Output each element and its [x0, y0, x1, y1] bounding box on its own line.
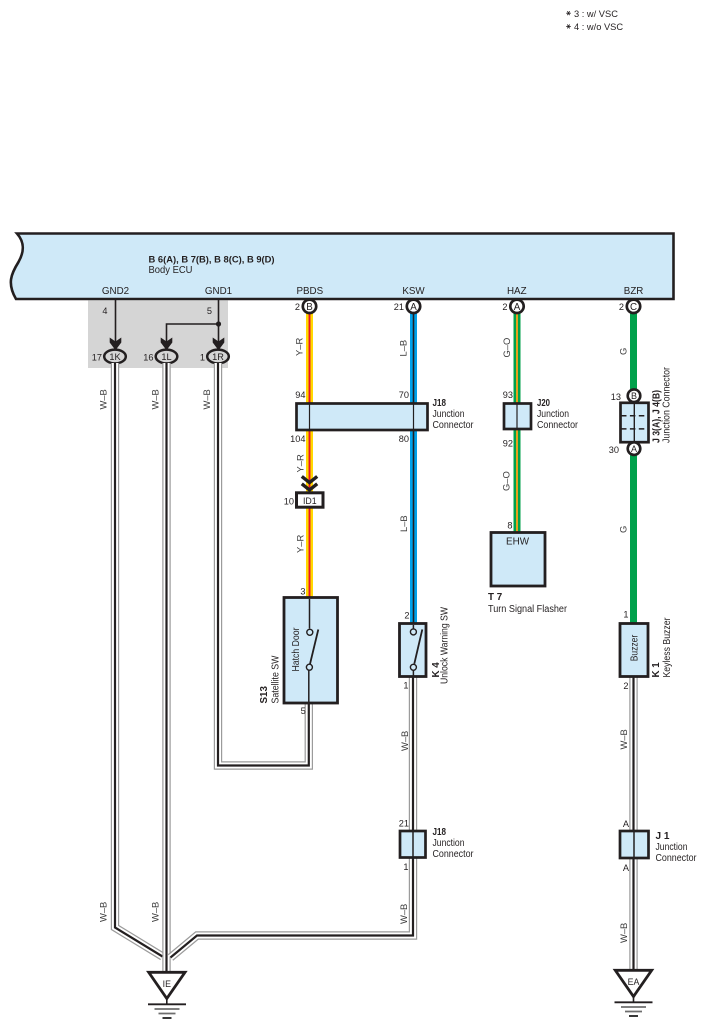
svg-text:4: 4 — [102, 306, 107, 316]
junction connector J18 (upper, wide) — [290, 390, 474, 444]
svg-text:93: 93 — [503, 390, 513, 400]
hatch door switch S13 body — [259, 587, 338, 717]
junction dot on GND1 wire — [216, 321, 221, 326]
junction connector J18 (lower) — [399, 819, 474, 872]
svg-text:J18: J18 — [433, 827, 447, 838]
svg-text:Satellite SW: Satellite SW — [271, 655, 282, 704]
wire GND2 pin 4 — [115, 300, 117, 342]
ECU pin circle A (HAZ pin 2) — [502, 300, 523, 313]
svg-text:Body ECU: Body ECU — [149, 265, 193, 276]
connector 1R pin 1 — [207, 350, 229, 364]
svg-text:BZR: BZR — [624, 286, 644, 297]
svg-text:IE: IE — [163, 979, 171, 989]
svg-text:1: 1 — [403, 862, 408, 872]
wire W-B from 1R to S13 pin 5 — [218, 363, 309, 766]
svg-text:1: 1 — [200, 353, 205, 363]
svg-text:W–B: W–B — [98, 902, 109, 922]
wire G-O J20 to EHW pin 8 — [514, 430, 521, 533]
svg-text:Buzzer: Buzzer — [629, 634, 640, 661]
ground EA hatching — [615, 1002, 653, 1016]
svg-text:5: 5 — [207, 306, 212, 316]
wire W-B from K4 pin 1 through J18 to IE ground — [171, 677, 414, 958]
svg-text:80: 80 — [399, 434, 409, 444]
svg-text:W–B: W–B — [618, 729, 629, 749]
junction connector J3(A) J4(B) grid body — [621, 366, 673, 443]
svg-text:Junction: Junction — [656, 842, 688, 853]
svg-text:2: 2 — [295, 302, 300, 312]
svg-text:Connector: Connector — [433, 849, 475, 860]
svg-text:PBDS: PBDS — [296, 286, 323, 297]
svg-text:J18: J18 — [433, 398, 447, 409]
ECU pin circle C (BZR pin 2) — [619, 300, 640, 313]
unlock warning switch K4 body — [400, 606, 451, 690]
svg-text:16: 16 — [143, 353, 153, 363]
chevron arrows into ID1 — [302, 476, 317, 490]
junction connector J3(A) J4(B) pin circle B — [611, 389, 641, 402]
svg-text:B: B — [631, 391, 637, 401]
note asterisk 3 — [566, 11, 571, 15]
svg-text:1L: 1L — [161, 352, 171, 362]
wire L-B J18 to K4 pin 2 — [410, 430, 417, 624]
wire G BZR to J3 pin 13 — [630, 312, 637, 390]
svg-text:B 6(A), B 7(B), B 8(C), B 9(D): B 6(A), B 7(B), B 8(C), B 9(D) — [149, 254, 275, 265]
svg-text:Junction: Junction — [433, 838, 465, 849]
svg-text:3: 3 — [300, 587, 305, 597]
svg-text:Unlock Warning SW: Unlock Warning SW — [440, 606, 451, 684]
svg-text:Y–R: Y–R — [295, 454, 306, 472]
svg-text:8: 8 — [507, 520, 512, 530]
ECU pin circle B (PBDS pin 2) — [295, 300, 316, 313]
svg-text:70: 70 — [399, 390, 409, 400]
connector 1L pin 16 — [156, 350, 178, 364]
svg-text:S13: S13 — [259, 686, 270, 704]
svg-text:Y–R: Y–R — [294, 338, 305, 356]
svg-text:Connector: Connector — [656, 853, 698, 864]
svg-text:92: 92 — [503, 439, 513, 449]
wire W-B from 1L to IE ground — [162, 363, 170, 973]
svg-text:W–B: W–B — [150, 389, 161, 409]
svg-text:A: A — [631, 444, 637, 454]
svg-text:KSW: KSW — [402, 286, 425, 297]
svg-text:Y–R: Y–R — [295, 535, 306, 553]
keyless buzzer K1 body — [620, 610, 673, 692]
junction connector J1 — [620, 819, 697, 873]
svg-text:104: 104 — [290, 434, 305, 444]
svg-text:2: 2 — [404, 611, 409, 621]
svg-text:B: B — [306, 302, 313, 313]
ground connector shaded block — [88, 301, 228, 369]
wire G J3 pin 30 to buzzer pin 1 — [630, 455, 637, 624]
svg-text:GND1: GND1 — [205, 286, 232, 297]
ID1 box pin 10 — [284, 493, 323, 507]
wire L-B KSW to J18 — [410, 312, 417, 404]
svg-text:K 1: K 1 — [651, 662, 662, 678]
svg-text:J 1: J 1 — [656, 831, 671, 842]
turn signal flasher T7 EHW box — [488, 520, 568, 614]
svg-text:Junction: Junction — [433, 409, 465, 420]
svg-text:W–B: W–B — [398, 904, 409, 924]
svg-text:21: 21 — [394, 302, 404, 312]
svg-text:W–B: W–B — [150, 902, 161, 922]
svg-text:A: A — [410, 302, 417, 313]
arrow into 1K — [110, 338, 122, 351]
svg-text:1R: 1R — [212, 352, 224, 362]
svg-text:L–B: L–B — [398, 340, 409, 357]
svg-text:Junction Connector: Junction Connector — [662, 366, 673, 443]
svg-text:EHW: EHW — [506, 537, 530, 548]
wire W-B from 1K to IE ground — [115, 363, 163, 957]
svg-text:W–B: W–B — [201, 389, 212, 409]
connector 1K pin 17 — [104, 350, 126, 364]
svg-text:30: 30 — [609, 445, 619, 455]
svg-text:G: G — [618, 348, 629, 355]
svg-text:1: 1 — [403, 681, 408, 691]
wire Y-R J18 to ID1 — [306, 430, 313, 493]
svg-text:Junction: Junction — [537, 409, 569, 420]
ground IE hatching — [148, 1004, 186, 1018]
svg-text:1: 1 — [623, 610, 628, 620]
svg-text:W–B: W–B — [98, 389, 109, 409]
svg-text:1K: 1K — [109, 352, 121, 362]
wire Y-R ID1 to S13 pin 3 — [306, 508, 313, 599]
svg-text:2: 2 — [619, 302, 624, 312]
svg-text:Turn Signal Flasher: Turn Signal Flasher — [488, 604, 568, 615]
svg-text:Hatch Door: Hatch Door — [291, 627, 302, 672]
svg-text:94: 94 — [295, 390, 305, 400]
wire GND1 pin 5 — [218, 300, 220, 342]
svg-text:G–O: G–O — [501, 471, 512, 491]
svg-text:W–B: W–B — [618, 923, 629, 943]
svg-text:A: A — [514, 302, 521, 313]
svg-text:Connector: Connector — [537, 420, 579, 431]
svg-text:HAZ: HAZ — [507, 286, 527, 297]
svg-text:4 : w/o VSC: 4 : w/o VSC — [574, 22, 623, 32]
wire W-B from buzzer K1 pin 2 through J1 to EA ground — [629, 677, 637, 971]
svg-text:GND2: GND2 — [102, 286, 129, 297]
junction connector J3(A) J4(B) pin circle A — [609, 442, 641, 455]
branch wire to 1L — [167, 324, 219, 342]
svg-text:A: A — [623, 819, 630, 829]
Body ECU box B6(A) B7(B) B8(C) B9(D) — [11, 234, 674, 300]
svg-text:5: 5 — [301, 706, 306, 716]
svg-text:Connector: Connector — [433, 420, 475, 431]
svg-text:17: 17 — [92, 353, 102, 363]
ground IE triangle — [149, 972, 185, 1004]
svg-text:EA: EA — [628, 977, 640, 987]
ground EA triangle — [615, 970, 651, 1002]
svg-text:J20: J20 — [537, 398, 550, 409]
svg-text:L–B: L–B — [398, 515, 409, 532]
ECU pin circle A (KSW pin 21) — [394, 300, 420, 313]
wire Y-R PBDS to J18 — [306, 312, 313, 404]
svg-text:ID1: ID1 — [303, 496, 317, 506]
svg-text:10: 10 — [284, 496, 294, 506]
svg-text:G–O: G–O — [501, 338, 512, 358]
junction connector J20 — [503, 390, 579, 449]
svg-text:2: 2 — [502, 302, 507, 312]
wire G-O HAZ to J20 — [514, 312, 521, 404]
svg-text:T 7: T 7 — [488, 592, 503, 603]
svg-text:C: C — [630, 302, 637, 313]
svg-text:W–B: W–B — [399, 731, 410, 751]
arrow into 1R — [213, 338, 225, 351]
svg-text:G: G — [618, 526, 629, 533]
svg-text:13: 13 — [611, 392, 621, 402]
svg-text:21: 21 — [399, 819, 409, 829]
svg-text:3 : w/ VSC: 3 : w/ VSC — [574, 9, 618, 19]
svg-text:A: A — [623, 863, 630, 873]
svg-text:Keyless Buzzer: Keyless Buzzer — [662, 617, 673, 678]
note asterisk 4 — [566, 24, 571, 28]
svg-text:2: 2 — [623, 681, 628, 691]
arrow into 1L — [161, 338, 173, 351]
